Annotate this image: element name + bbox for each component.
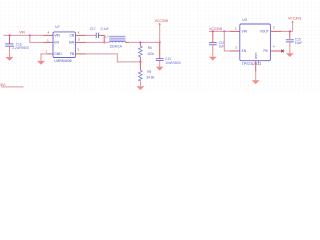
svg-text:VOUT: VOUT [260, 30, 269, 34]
junction VIN/EN [29, 34, 31, 36]
pin number 4 (VIN) [47, 31, 49, 35]
pin number 3 (FB) [77, 47, 79, 51]
pin number 4 (U3 FB) [273, 44, 275, 48]
svg-text:GND: GND [54, 52, 62, 56]
svg-text:U3: U3 [242, 18, 246, 22]
wire SW to inductor [75, 41, 109, 43]
svg-text:110k: 110k [147, 52, 154, 56]
capacitor C16 [5, 35, 29, 57]
capacitor C15 [286, 31, 302, 53]
svg-text:U?: U? [55, 25, 59, 29]
pin number 5 (SW) [78, 37, 80, 41]
svg-text:15uH/1A: 15uH/1A [110, 44, 123, 48]
pin number 1 (U3 VIN) [235, 26, 237, 30]
wire VIN input rail [4, 34, 54, 36]
junction C19 [212, 30, 214, 32]
pin number 3 (U3 EN) [235, 46, 237, 50]
net flag VCC3V8 output [155, 19, 168, 43]
svg-text:0.1uF: 0.1uF [101, 27, 109, 31]
wire EN tie to VIN [30, 35, 53, 42]
resistor R9 [139, 62, 155, 86]
svg-text:LMR54406: LMR54406 [54, 59, 71, 63]
ground below C15 [286, 53, 294, 57]
junction C17/SW [103, 41, 105, 43]
wire EN tie U3 [224, 31, 240, 51]
junction VCC3V8 [159, 41, 161, 43]
ground below C16 [6, 57, 14, 61]
svg-text:R6: R6 [148, 46, 152, 50]
svg-text:1uF: 1uF [219, 44, 225, 48]
net label VIN [19, 31, 25, 35]
inductor L? [105, 35, 125, 48]
IC U? buck regulator LMR54406 [53, 25, 75, 63]
svg-text:10uF/0603: 10uF/0603 [165, 61, 180, 65]
capacitor C21 [156, 42, 181, 66]
wire inductor to VCC3V8 node [125, 41, 159, 43]
resistor R6 [139, 42, 155, 62]
svg-text:CB: CB [69, 34, 74, 38]
capacitor C17 bootstrap [90, 27, 109, 38]
svg-text:EN: EN [54, 41, 59, 45]
junction FB divider [139, 61, 141, 63]
svg-text:C17: C17 [90, 27, 96, 31]
svg-text:VCC3V8: VCC3V8 [155, 19, 168, 23]
svg-text:FB: FB [264, 49, 268, 53]
net label 5V0 bottom left [0, 83, 5, 87]
ground below R9 [137, 86, 145, 90]
junction R6 top [139, 41, 141, 43]
wire CB to C17 [75, 34, 96, 36]
svg-text:VCC3V8: VCC3V8 [209, 27, 222, 31]
capacitor C19 [209, 31, 225, 56]
svg-text:R9: R9 [147, 70, 151, 74]
junction VIN/C16 [9, 34, 11, 36]
svg-text:34.8k: 34.8k [146, 76, 154, 80]
pin number 2 (GND) [46, 49, 48, 53]
junction EN tie [223, 30, 225, 32]
wire FB to divider [75, 54, 140, 62]
wire C17 to SW node [99, 35, 105, 42]
wire VOUT to VCC3V3 [270, 30, 292, 32]
svg-text:2.2uF/0603: 2.2uF/0603 [12, 46, 28, 50]
wire bottom left [1, 86, 24, 88]
wire GND pin of U? [41, 54, 53, 61]
wire VCC3V8 to U3 VIN [209, 30, 240, 32]
pin number 5 (U3 VOUT) [273, 26, 275, 30]
net label VCC3V8 at LDO input [209, 27, 222, 31]
ground below C21 [156, 67, 164, 71]
svg-text:VIN: VIN [54, 34, 60, 38]
svg-text:L?: L? [105, 35, 109, 39]
ground below C19 [209, 57, 217, 61]
pin number 1 (EN) [47, 39, 49, 43]
pin number 2 (U3 GND) [258, 60, 260, 64]
junction C15 tap [289, 30, 291, 32]
svg-text:SW: SW [69, 41, 75, 45]
svg-text:FB: FB [70, 52, 75, 56]
svg-text:VIN: VIN [19, 31, 25, 35]
no-connect cross on U3 FB [270, 50, 284, 53]
svg-text:EN: EN [242, 49, 247, 53]
net flag VCC3V3 [288, 16, 301, 31]
ground below U? GND [37, 61, 45, 65]
IC U3 LDO TPS7A2033 [240, 18, 271, 66]
svg-text:VIN: VIN [242, 30, 248, 34]
svg-text:VCC3V3: VCC3V3 [288, 16, 301, 20]
svg-text:10uF: 10uF [295, 41, 302, 45]
pin number 6 (CB) [78, 30, 80, 34]
wire U3 GND [255, 61, 257, 81]
ground below U3 [252, 80, 260, 84]
svg-text:GND: GND [254, 53, 258, 59]
